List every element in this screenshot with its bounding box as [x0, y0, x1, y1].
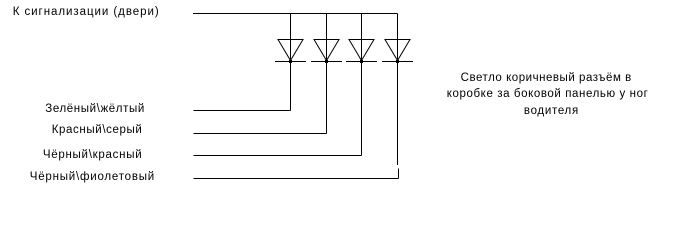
- wire: vertical branch 4 lower segment: [398, 169, 400, 179]
- junction D2 apex: [325, 60, 328, 63]
- wire: horizontal to Зелёный\жёлтый: [194, 110, 291, 112]
- annotation: connector location note line 1: [461, 73, 632, 85]
- annotation: connector location note line 2: [447, 89, 649, 101]
- diode D1 cathode bar: [275, 61, 306, 63]
- diode D3 cathode bar: [346, 61, 377, 63]
- wire: vertical branch 1 (anode+cathode lead of D1): [290, 14, 292, 111]
- annotation: connector location note line 3: [524, 106, 579, 118]
- net label: Зелёный\жёлтый: [45, 104, 145, 116]
- diode D4 cathode bar: [382, 61, 413, 63]
- diode D4 triangle: [385, 40, 410, 61]
- wire: top bus from "К сигнализации (двери)": [193, 13, 398, 15]
- wire: vertical branch 4 upper segment (lead of D4): [397, 14, 399, 166]
- diode D2 triangle: [314, 40, 339, 61]
- wire: vertical branch 2 (anode+cathode lead of D2): [326, 14, 328, 134]
- diode D1 triangle: [278, 40, 303, 61]
- wire: horizontal to Красный\серый: [194, 133, 327, 135]
- net label: К сигнализации (двери): [13, 7, 160, 19]
- wire: vertical branch 3 (anode+cathode lead of D3): [361, 14, 363, 156]
- wire: horizontal to Чёрный\красный: [194, 155, 362, 157]
- net label: Красный\серый: [52, 125, 143, 137]
- junction D1 apex: [289, 60, 292, 63]
- wire: horizontal to Чёрный\фиолетовый: [194, 178, 399, 180]
- net label: Чёрный\фиолетовый: [30, 172, 155, 184]
- junction D3 apex: [360, 60, 363, 63]
- junction D4 apex: [396, 60, 399, 63]
- diode D3 triangle: [349, 40, 374, 61]
- net label: Чёрный\красный: [43, 150, 143, 162]
- diode D2 cathode bar: [311, 61, 342, 63]
